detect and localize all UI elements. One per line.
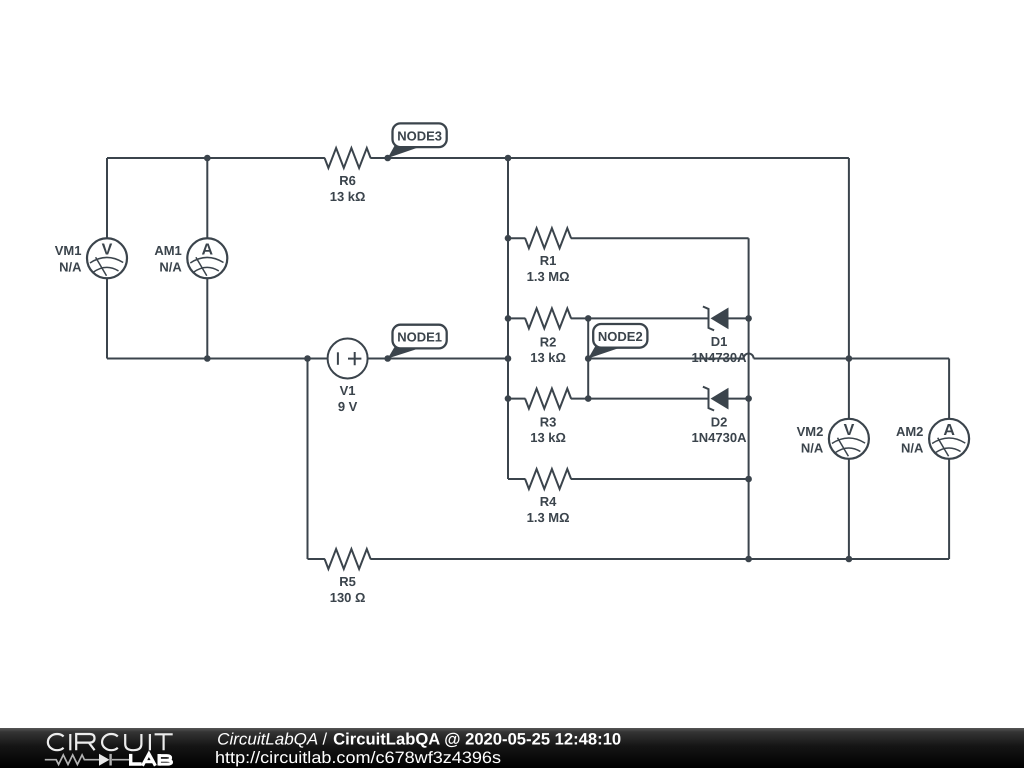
- svg-text:NODE3: NODE3: [397, 128, 442, 143]
- svg-text:N/A: N/A: [159, 259, 182, 274]
- svg-text:A: A: [943, 422, 955, 439]
- svg-text:130 Ω: 130 Ω: [330, 590, 366, 605]
- svg-text:1.3 MΩ: 1.3 MΩ: [527, 510, 570, 525]
- svg-text:N/A: N/A: [59, 259, 82, 274]
- svg-text:R4: R4: [540, 494, 557, 509]
- svg-text:13 kΩ: 13 kΩ: [530, 430, 566, 445]
- svg-text:http://circuitlab.com/c678wf3z: http://circuitlab.com/c678wf3z4396s: [215, 749, 501, 767]
- svg-text:/: /: [323, 731, 328, 749]
- svg-text:VM2: VM2: [797, 424, 824, 439]
- svg-text:A: A: [202, 241, 214, 258]
- svg-text:R6: R6: [339, 173, 356, 188]
- svg-text:D2: D2: [711, 414, 728, 429]
- svg-text:9 V: 9 V: [338, 399, 358, 414]
- svg-text:R1: R1: [540, 253, 557, 268]
- svg-text:1N4730A: 1N4730A: [692, 430, 748, 445]
- svg-text:N/A: N/A: [801, 440, 824, 455]
- svg-text:V: V: [844, 422, 855, 439]
- svg-text:V: V: [102, 241, 113, 258]
- svg-text:N/A: N/A: [901, 440, 924, 455]
- svg-text:1N4730A: 1N4730A: [692, 350, 748, 365]
- svg-text:D1: D1: [711, 334, 728, 349]
- svg-text:V1: V1: [340, 383, 356, 398]
- svg-text:VM1: VM1: [55, 243, 82, 258]
- svg-text:AM2: AM2: [896, 424, 923, 439]
- svg-text:AM1: AM1: [154, 243, 181, 258]
- svg-text:NODE2: NODE2: [598, 329, 643, 344]
- svg-text:R5: R5: [339, 574, 356, 589]
- svg-text:CircuitLabQA: CircuitLabQA: [217, 731, 318, 749]
- svg-text:13 kΩ: 13 kΩ: [530, 350, 566, 365]
- svg-text:13 kΩ: 13 kΩ: [330, 189, 366, 204]
- svg-text:R3: R3: [540, 415, 557, 430]
- svg-text:1.3 MΩ: 1.3 MΩ: [527, 269, 570, 284]
- svg-text:R2: R2: [540, 334, 557, 349]
- svg-text:NODE1: NODE1: [397, 330, 442, 345]
- svg-text:CircuitLabQA @ 2020-05-25 12:4: CircuitLabQA @ 2020-05-25 12:48:10: [333, 731, 621, 749]
